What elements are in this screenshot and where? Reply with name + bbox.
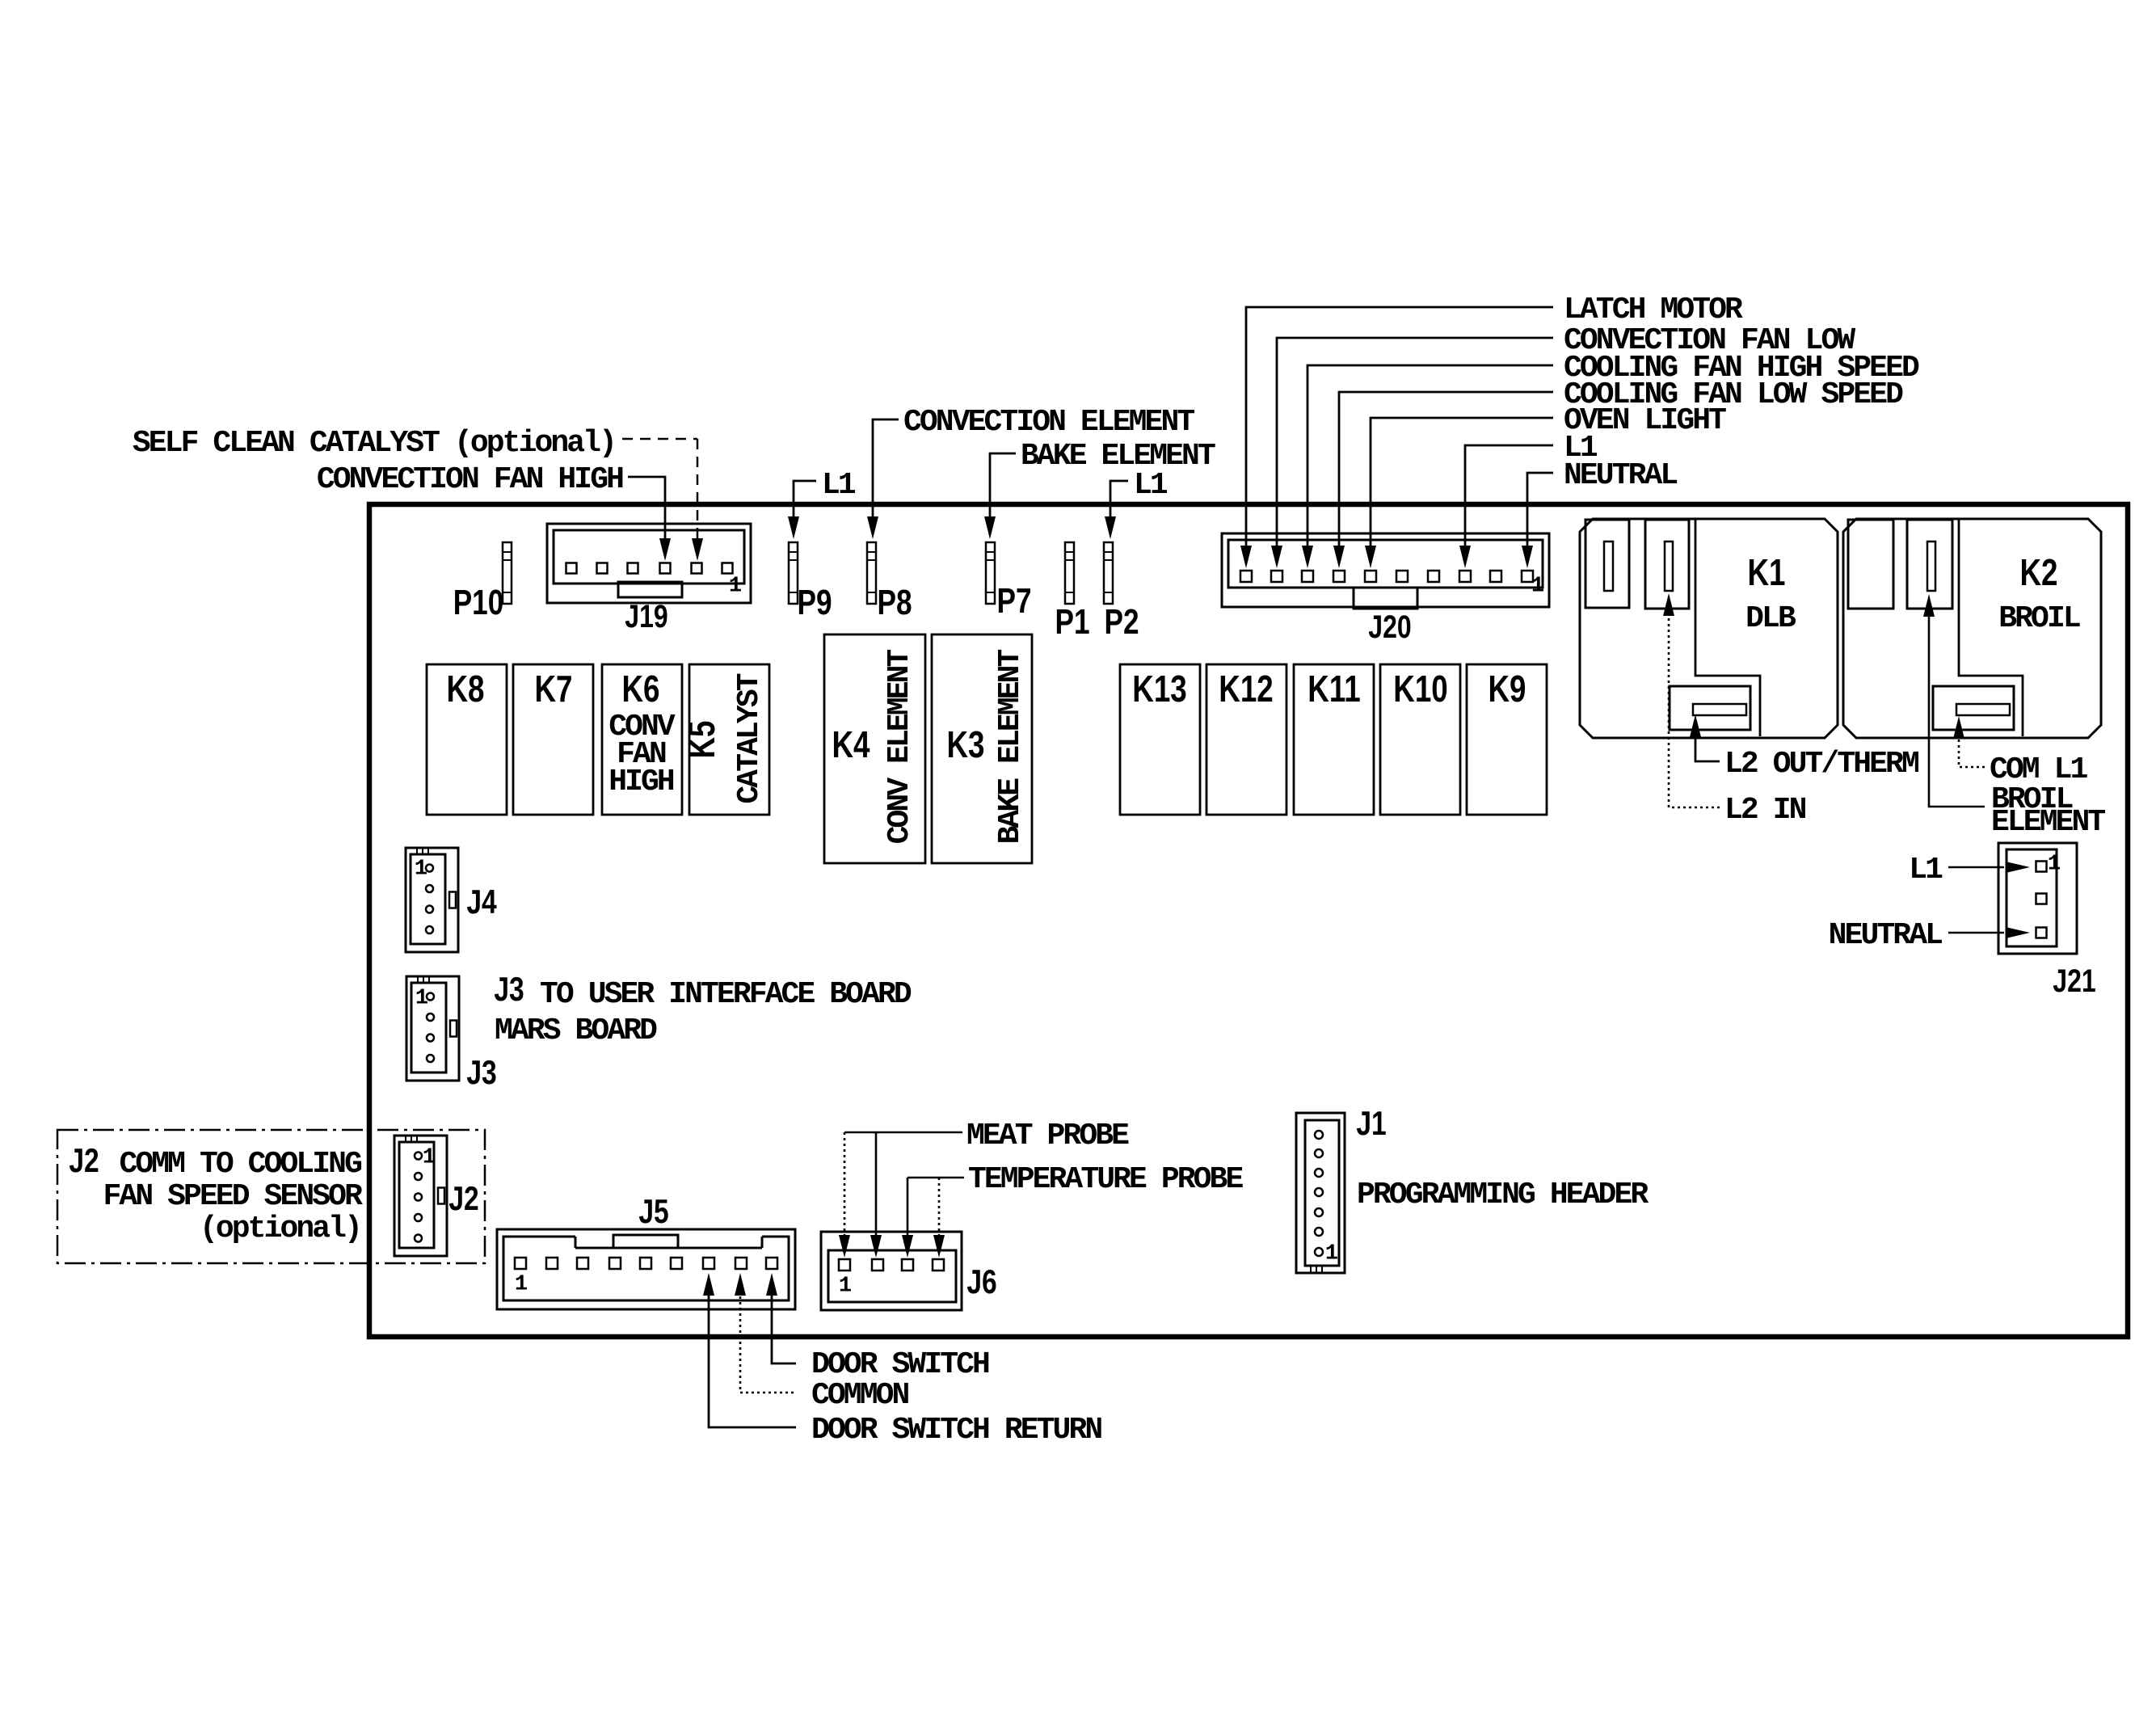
svg-text:DOOR SWITCH: DOOR SWITCH: [811, 1347, 989, 1382]
svg-text:1: 1: [415, 858, 427, 882]
svg-text:1: 1: [423, 1146, 436, 1170]
svg-text:CONVECTION FAN HIGH: CONVECTION FAN HIGH: [317, 462, 623, 497]
svg-text:J6: J6: [966, 1264, 996, 1301]
svg-text:BAKE ELEMENT: BAKE ELEMENT: [993, 649, 1028, 844]
svg-text:MARS BOARD: MARS BOARD: [495, 1014, 657, 1048]
svg-text:J21: J21: [2053, 963, 2095, 999]
svg-text:BROIL: BROIL: [1998, 601, 2080, 636]
svg-text:J20: J20: [1368, 609, 1411, 645]
svg-text:NEUTRAL: NEUTRAL: [1829, 918, 1942, 953]
svg-text:J2: J2: [448, 1181, 478, 1218]
svg-text:K3: K3: [946, 723, 984, 765]
svg-text:L2 IN: L2 IN: [1724, 793, 1806, 828]
svg-text:CONVECTION ELEMENT: CONVECTION ELEMENT: [903, 405, 1194, 440]
svg-text:TO USER INTERFACE BOARD: TO USER INTERFACE BOARD: [540, 977, 912, 1012]
svg-text:P1: P1: [1055, 602, 1089, 642]
svg-text:J2: J2: [69, 1143, 99, 1180]
svg-text:K8: K8: [446, 668, 484, 710]
svg-text:K11: K11: [1307, 668, 1360, 710]
svg-text:1: 1: [839, 1275, 852, 1299]
svg-text:L1: L1: [1134, 468, 1168, 503]
svg-text:K4: K4: [832, 723, 870, 765]
svg-text:DOOR SWITCH RETURN: DOOR SWITCH RETURN: [811, 1413, 1101, 1448]
svg-text:1: 1: [729, 575, 742, 599]
svg-text:TEMPERATURE PROBE: TEMPERATURE PROBE: [968, 1162, 1243, 1197]
svg-text:DLB: DLB: [1745, 601, 1796, 636]
svg-text:1: 1: [415, 987, 428, 1011]
svg-text:ELEMENT: ELEMENT: [1991, 805, 2105, 840]
svg-text:1: 1: [1325, 1242, 1338, 1266]
svg-text:L2 OUT/THERM: L2 OUT/THERM: [1724, 747, 1918, 782]
svg-text:P10: P10: [453, 583, 504, 622]
svg-text:K9: K9: [1488, 668, 1526, 710]
svg-text:CONV ELEMENT: CONV ELEMENT: [882, 649, 917, 844]
svg-text:NEUTRAL: NEUTRAL: [1564, 458, 1677, 493]
svg-text:BAKE ELEMENT: BAKE ELEMENT: [1021, 439, 1215, 474]
svg-text:CATALYST: CATALYST: [732, 673, 767, 803]
svg-text:K6: K6: [621, 668, 659, 710]
svg-text:PROGRAMMING HEADER: PROGRAMMING HEADER: [1357, 1178, 1649, 1212]
svg-text:COMM TO COOLING: COMM TO COOLING: [119, 1147, 361, 1182]
svg-text:L1: L1: [822, 468, 856, 503]
svg-text:(optional): (optional): [200, 1212, 360, 1246]
svg-text:FAN SPEED SENSOR: FAN SPEED SENSOR: [103, 1179, 364, 1214]
svg-text:K13: K13: [1132, 668, 1186, 710]
svg-text:K10: K10: [1393, 668, 1447, 710]
svg-text:1: 1: [1531, 575, 1544, 599]
svg-text:P7: P7: [996, 581, 1031, 621]
svg-text:J4: J4: [466, 884, 496, 921]
svg-text:COMMON: COMMON: [811, 1378, 909, 1413]
svg-text:J3: J3: [466, 1055, 496, 1092]
svg-text:MEAT PROBE: MEAT PROBE: [966, 1119, 1129, 1153]
svg-text:K12: K12: [1219, 668, 1273, 710]
svg-text:P9: P9: [797, 583, 832, 622]
svg-text:HIGH: HIGH: [608, 765, 674, 799]
svg-text:SELF CLEAN CATALYST (optional): SELF CLEAN CATALYST (optional): [133, 426, 615, 461]
svg-text:J19: J19: [625, 598, 667, 634]
svg-text:J5: J5: [638, 1194, 668, 1231]
svg-text:K5: K5: [680, 720, 722, 758]
svg-text:LATCH MOTOR: LATCH MOTOR: [1564, 293, 1743, 327]
svg-text:L1: L1: [1909, 853, 1943, 887]
svg-text:J1: J1: [1356, 1106, 1386, 1143]
svg-text:1: 1: [515, 1273, 528, 1297]
svg-text:K7: K7: [534, 668, 572, 710]
svg-text:K1: K1: [1747, 551, 1785, 593]
svg-text:K2: K2: [2019, 551, 2057, 593]
svg-text:P8: P8: [877, 583, 912, 622]
svg-text:J3: J3: [494, 971, 524, 1009]
svg-text:1: 1: [2048, 853, 2061, 877]
svg-text:P2: P2: [1104, 602, 1139, 642]
